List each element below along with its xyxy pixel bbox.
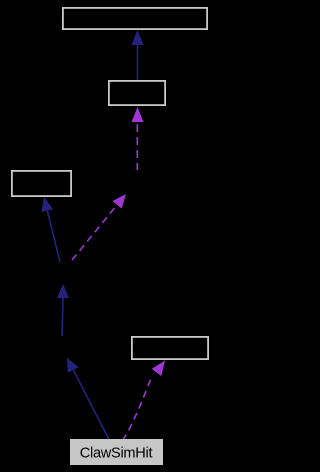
wire: dashed usage edge node C to node D	[72, 205, 117, 260]
arrowhead navy at node C bottom	[57, 284, 69, 298]
wire: solid inheritance edge ClawSimHit to node B	[73, 370, 109, 441]
svg-text:ClawDigi: ClawDigi	[110, 175, 169, 192]
arrowhead navy at node B bottom	[67, 358, 79, 373]
svg-text:BaseClass: BaseClass	[99, 10, 171, 27]
svg-text:Class3: Class3	[18, 174, 64, 191]
svg-text:ClawSimHit: ClawSimHit	[80, 446, 153, 462]
node box top (base class, transparent fill)	[63, 8, 207, 29]
arrowhead purple at box2 bottom	[132, 107, 144, 122]
svg-text:Class4: Class4	[147, 339, 193, 356]
node box 3 (transparent fill)	[12, 171, 71, 196]
node box 2 (transparent fill)	[109, 81, 165, 105]
svg-text:Class2: Class2	[114, 84, 160, 101]
svg-text:ClawBase: ClawBase	[32, 265, 100, 282]
node ClawSimHit (current class, grey filled)	[70, 439, 163, 465]
arrowhead navy at box1 bottom	[132, 30, 144, 45]
wire: solid edge node C to box3	[47, 211, 60, 262]
wire: solid edge node B to node C	[62, 298, 63, 336]
wire: solid inheritance edge box2 to box1	[137, 45, 139, 81]
node box 4 (transparent fill)	[132, 337, 208, 359]
arrowhead purple at node D	[113, 194, 127, 209]
svg-text:ClawMid: ClawMid	[36, 339, 94, 356]
arrowhead purple at box4 bottom	[152, 361, 165, 377]
arrowhead navy at box3 bottom	[42, 197, 54, 212]
wire: dashed usage edge node D to box2	[136, 124, 138, 170]
wire: dashed usage edge ClawSimHit to box4	[123, 377, 152, 441]
